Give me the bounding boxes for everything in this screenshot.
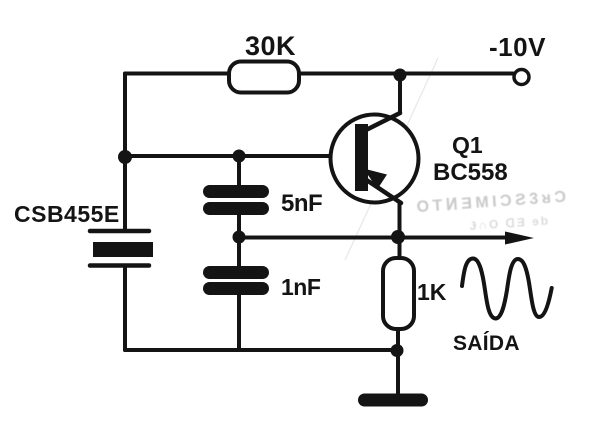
svg-text:30K: 30K bbox=[245, 31, 296, 61]
svg-text:1nF: 1nF bbox=[281, 274, 321, 300]
svg-text:CSB455E: CSB455E bbox=[14, 201, 120, 227]
svg-text:-10V: -10V bbox=[489, 32, 546, 62]
svg-text:OTͶƎMIƆƧ3ᴚƆ: OTͶƎMIƆƧ3ᴚƆ bbox=[416, 188, 570, 216]
svg-text:5nF: 5nF bbox=[281, 190, 322, 217]
svg-text:Q1: Q1 bbox=[452, 132, 483, 158]
svg-text:BC558: BC558 bbox=[433, 159, 508, 186]
svg-text:1K: 1K bbox=[417, 279, 447, 305]
svg-text:Ɉ∩O ꓷƎ ɘb: Ɉ∩O ꓷƎ ɘb bbox=[469, 213, 550, 233]
svg-text:SAÍDA: SAÍDA bbox=[453, 332, 520, 355]
